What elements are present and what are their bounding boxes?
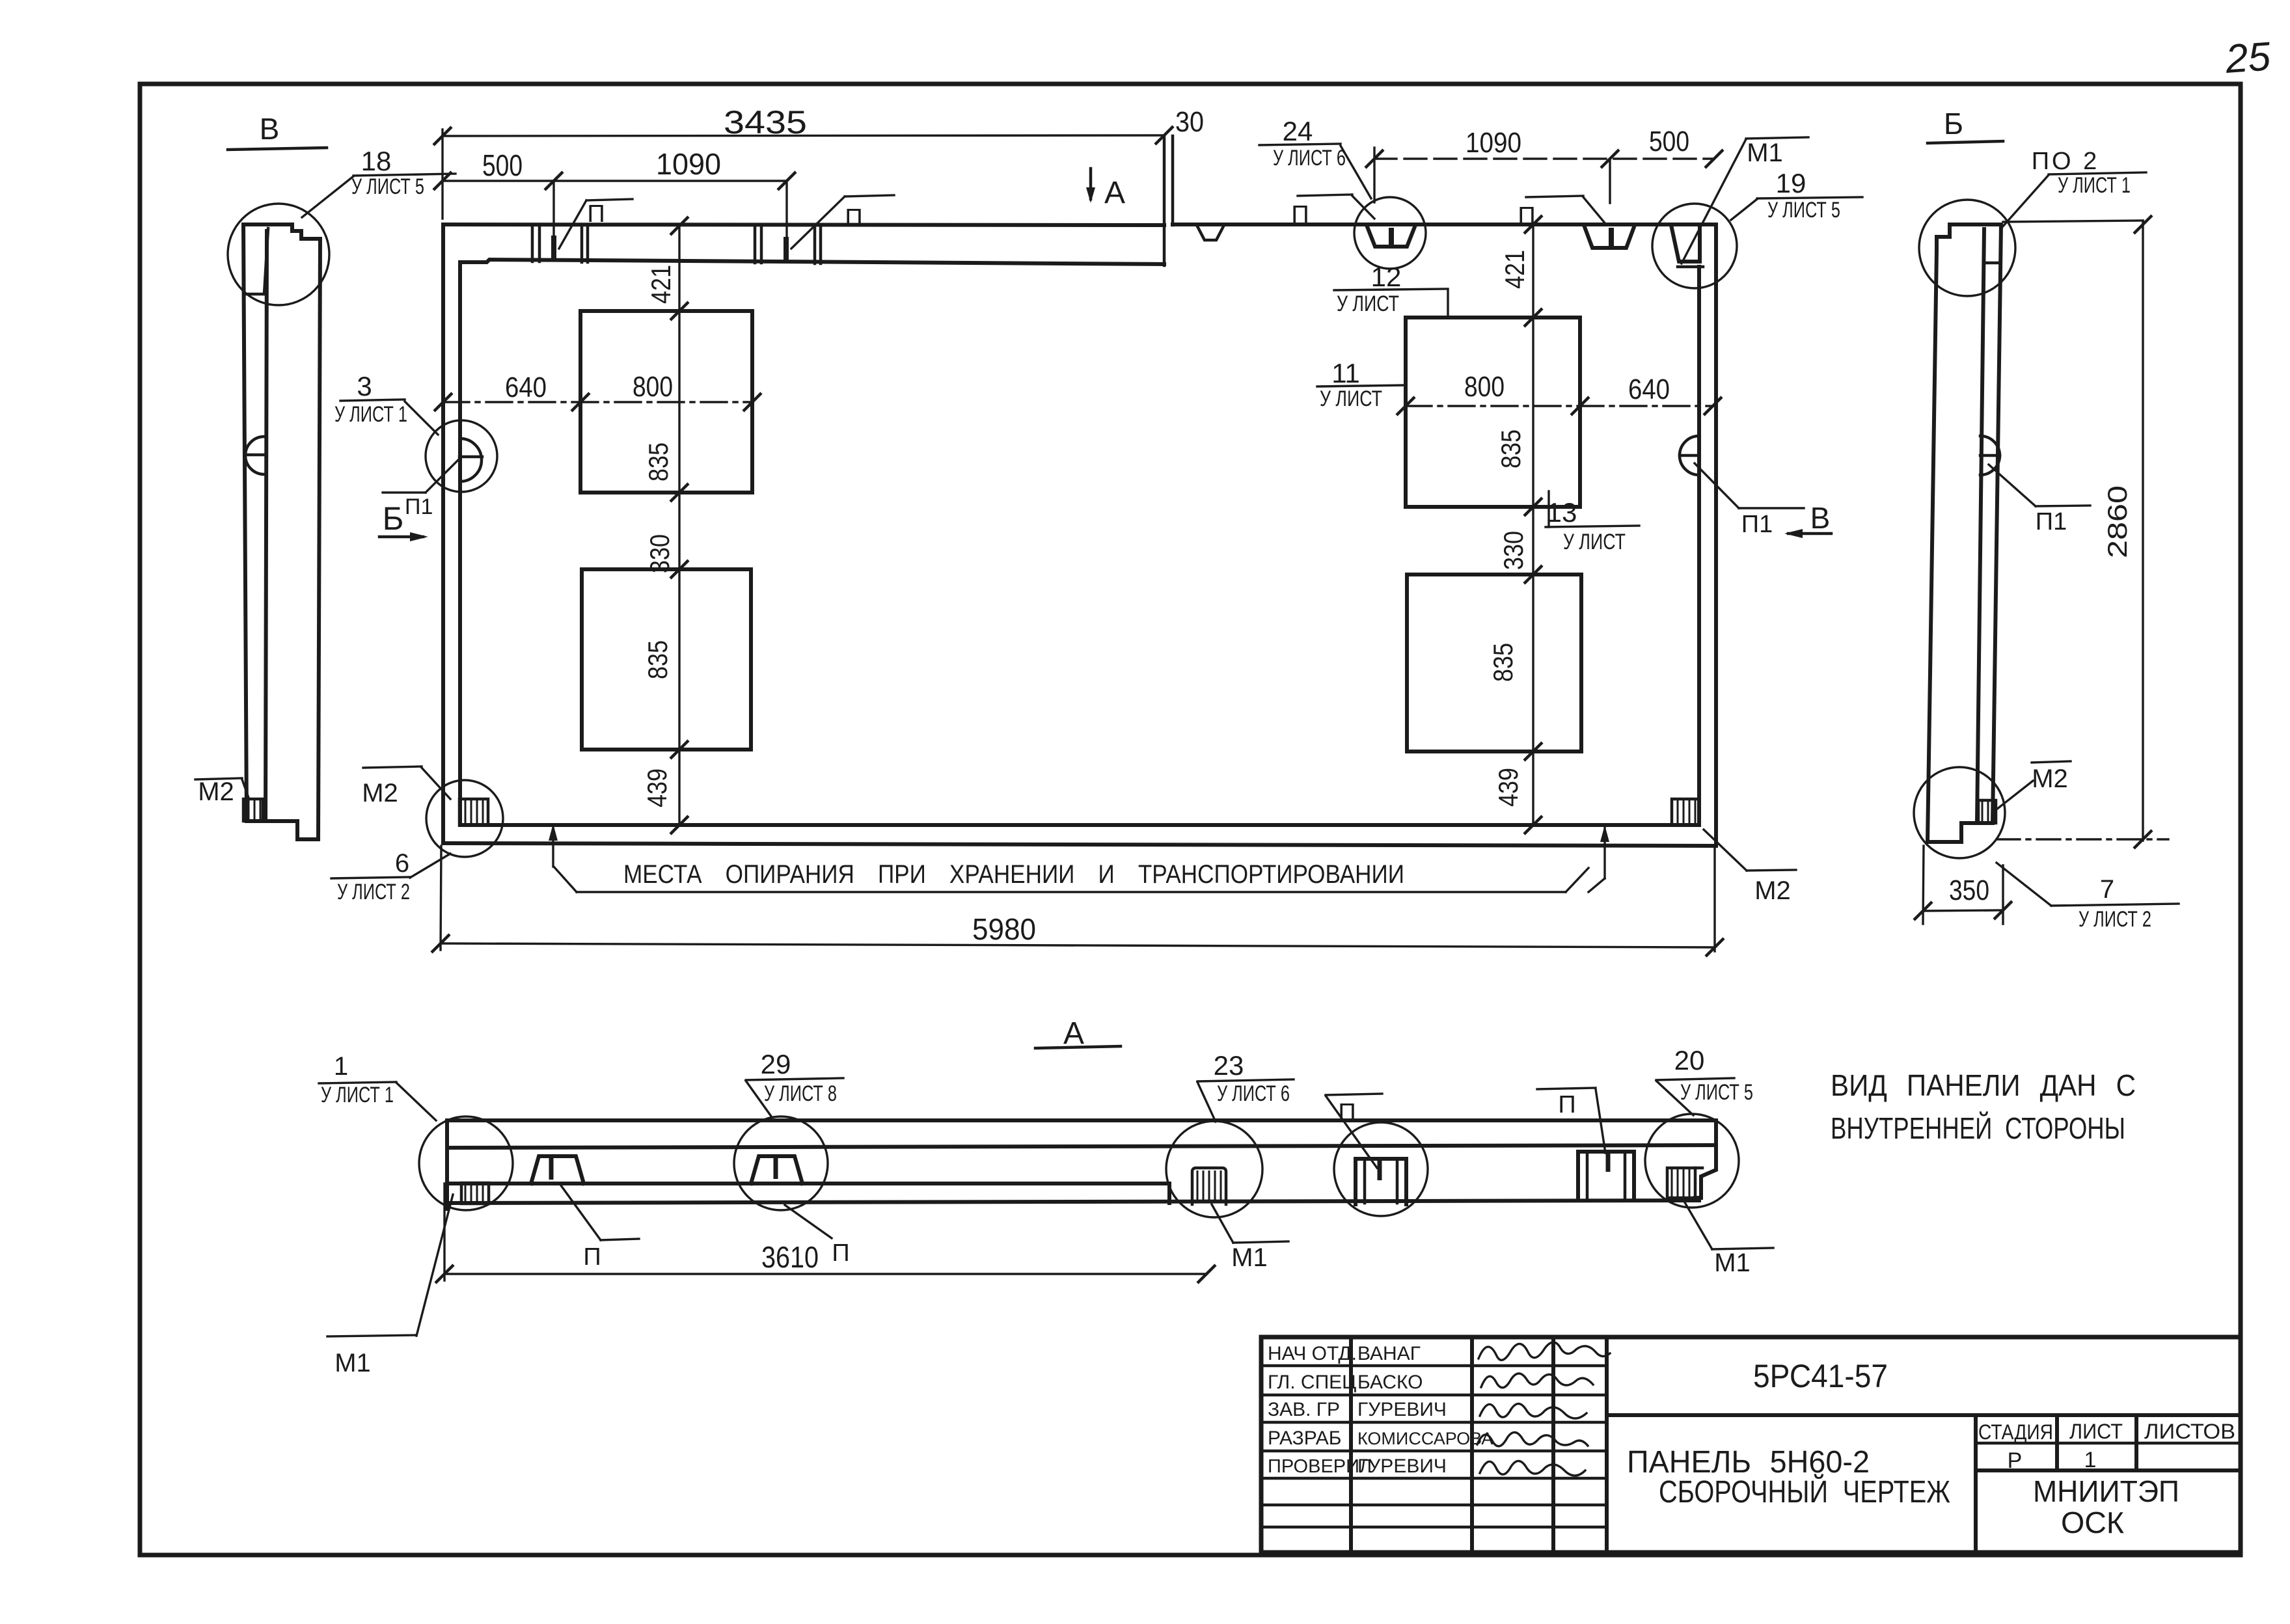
- svg-text:5РС41-57: 5РС41-57: [1753, 1358, 1888, 1394]
- svg-text:П1: П1: [405, 494, 433, 519]
- svg-text:ВАНАГ: ВАНАГ: [1357, 1343, 1421, 1364]
- svg-text:М1: М1: [1231, 1243, 1268, 1272]
- svg-text:ВИД ПАНЕЛИ ДАН С: ВИД ПАНЕЛИ ДАН С: [1831, 1068, 2136, 1102]
- svg-text:2860: 2860: [2102, 485, 2133, 558]
- svg-text:330: 330: [1498, 531, 1529, 570]
- svg-text:6: 6: [395, 849, 409, 878]
- svg-text:20: 20: [1674, 1045, 1705, 1076]
- svg-text:Б: Б: [383, 500, 404, 537]
- svg-text:ЛИСТ: ЛИСТ: [2069, 1420, 2123, 1443]
- svg-text:У ЛИСТ 2: У ЛИСТ 2: [2079, 907, 2151, 932]
- svg-text:РАЗРАБ: РАЗРАБ: [1268, 1428, 1342, 1449]
- svg-text:ПРОВЕРИЛ: ПРОВЕРИЛ: [1268, 1456, 1372, 1477]
- svg-text:МЕСТА ОПИРАНИЯ ПРИ ХРАНЕНИИ И: МЕСТА ОПИРАНИЯ ПРИ ХРАНЕНИИ И ТРАНСПОРТИ…: [623, 860, 1404, 889]
- svg-text:18: 18: [361, 146, 392, 176]
- svg-text:М1: М1: [1747, 139, 1783, 167]
- svg-text:ГУРЕВИЧ: ГУРЕВИЧ: [1357, 1455, 1447, 1477]
- svg-text:П: П: [832, 1239, 849, 1267]
- svg-text:350: 350: [1949, 874, 1989, 906]
- svg-text:М2: М2: [362, 779, 398, 807]
- svg-text:БАСКО: БАСКО: [1357, 1372, 1423, 1393]
- svg-text:НАЧ ОТД.: НАЧ ОТД.: [1268, 1343, 1357, 1364]
- svg-text:У ЛИСТ 8: У ЛИСТ 8: [764, 1081, 837, 1106]
- svg-text:3: 3: [357, 371, 372, 401]
- svg-text:У ЛИСТ 6: У ЛИСТ 6: [1217, 1081, 1290, 1106]
- svg-text:А: А: [1063, 1016, 1084, 1051]
- svg-text:1: 1: [334, 1052, 348, 1081]
- svg-text:ГЛ. СПЕЦ: ГЛ. СПЕЦ: [1268, 1372, 1356, 1393]
- svg-text:ВНУТРЕННЕЙ СТОРОНЫ: ВНУТРЕННЕЙ СТОРОНЫ: [1831, 1111, 2125, 1145]
- svg-text:3435: 3435: [724, 104, 807, 141]
- svg-text:640: 640: [505, 372, 547, 403]
- svg-text:24: 24: [1283, 116, 1313, 146]
- svg-text:421: 421: [646, 265, 676, 304]
- svg-text:КОМИССАРОВА: КОМИССАРОВА: [1357, 1429, 1493, 1448]
- svg-text:У ЛИСТ: У ЛИСТ: [1320, 386, 1382, 411]
- svg-text:М2: М2: [2032, 765, 2068, 793]
- svg-text:У ЛИСТ 5: У ЛИСТ 5: [1680, 1080, 1753, 1105]
- svg-text:П: П: [1518, 202, 1535, 230]
- svg-text:13: 13: [1547, 497, 1577, 528]
- svg-text:У ЛИСТ 2: У ЛИСТ 2: [337, 880, 410, 904]
- svg-text:У ЛИСТ 1: У ЛИСТ 1: [321, 1083, 394, 1107]
- svg-text:А: А: [1104, 176, 1125, 210]
- svg-text:П: П: [1338, 1099, 1356, 1126]
- svg-text:835: 835: [643, 442, 674, 481]
- svg-text:У ЛИСТ 5: У ЛИСТ 5: [351, 174, 424, 199]
- svg-text:У ЛИСТ: У ЛИСТ: [1563, 530, 1626, 554]
- svg-text:М2: М2: [1754, 876, 1791, 905]
- svg-text:МНИИТЭП: МНИИТЭП: [2033, 1474, 2179, 1508]
- svg-text:П: П: [583, 1243, 601, 1271]
- svg-text:1090: 1090: [656, 147, 721, 181]
- svg-text:1090: 1090: [1465, 127, 1521, 159]
- svg-text:М1: М1: [334, 1349, 371, 1377]
- svg-text:П: П: [845, 204, 862, 232]
- svg-text:ГУРЕВИЧ: ГУРЕВИЧ: [1357, 1399, 1447, 1420]
- svg-text:У ЛИСТ 6: У ЛИСТ 6: [1273, 146, 1346, 170]
- svg-text:У ЛИСТ 1: У ЛИСТ 1: [2058, 173, 2131, 198]
- svg-text:439: 439: [1493, 768, 1523, 807]
- svg-text:Р: Р: [2008, 1448, 2023, 1473]
- svg-text:ПО 2: ПО 2: [2032, 148, 2100, 175]
- svg-text:25: 25: [2224, 34, 2272, 82]
- svg-text:330: 330: [644, 534, 675, 573]
- svg-text:ЛИСТОВ: ЛИСТОВ: [2144, 1420, 2235, 1443]
- svg-text:421: 421: [1499, 250, 1530, 289]
- svg-text:640: 640: [1628, 373, 1670, 405]
- svg-text:29: 29: [761, 1049, 791, 1079]
- svg-text:835: 835: [1488, 643, 1518, 682]
- svg-text:П1: П1: [1741, 511, 1773, 538]
- svg-text:800: 800: [1464, 371, 1505, 403]
- svg-text:835: 835: [1495, 429, 1526, 468]
- svg-text:800: 800: [633, 371, 673, 403]
- svg-text:В: В: [260, 112, 280, 146]
- svg-text:У ЛИСТ: У ЛИСТ: [1337, 291, 1399, 316]
- svg-text:Б: Б: [1944, 107, 1963, 141]
- svg-text:11: 11: [1331, 358, 1360, 388]
- svg-text:В: В: [1810, 501, 1831, 535]
- svg-text:М2: М2: [198, 778, 234, 806]
- svg-text:1: 1: [2084, 1448, 2097, 1472]
- svg-text:23: 23: [1214, 1050, 1244, 1081]
- svg-text:439: 439: [642, 768, 672, 807]
- svg-text:3610: 3610: [761, 1240, 819, 1274]
- svg-text:19: 19: [1776, 168, 1806, 198]
- svg-text:СБОРОЧНЫЙ ЧЕРТЕЖ: СБОРОЧНЫЙ ЧЕРТЕЖ: [1659, 1474, 1950, 1509]
- svg-text:12: 12: [1371, 262, 1402, 292]
- svg-text:7: 7: [2100, 875, 2114, 904]
- svg-text:5980: 5980: [972, 912, 1036, 946]
- svg-text:П1: П1: [2036, 508, 2067, 535]
- svg-text:П: П: [1558, 1091, 1575, 1118]
- svg-text:500: 500: [1649, 126, 1689, 157]
- svg-text:835: 835: [642, 640, 673, 679]
- svg-text:У ЛИСТ 1: У ЛИСТ 1: [334, 402, 407, 427]
- svg-text:500: 500: [482, 148, 523, 182]
- svg-text:П: П: [587, 200, 605, 228]
- svg-text:У ЛИСТ 5: У ЛИСТ 5: [1767, 198, 1840, 223]
- svg-text:ОСК: ОСК: [2061, 1506, 2124, 1539]
- svg-text:П: П: [1291, 201, 1309, 228]
- svg-text:ЗАВ. ГР: ЗАВ. ГР: [1268, 1399, 1340, 1420]
- svg-text:СТАДИЯ: СТАДИЯ: [1978, 1420, 2053, 1444]
- svg-text:М1: М1: [1714, 1249, 1751, 1277]
- svg-text:30: 30: [1175, 106, 1204, 138]
